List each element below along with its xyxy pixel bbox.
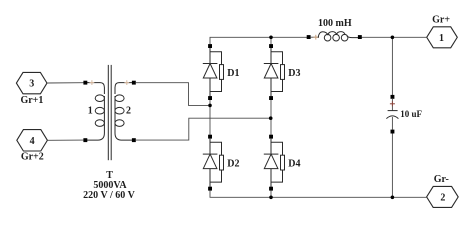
transformer winding 1 polarity + <box>90 80 95 85</box>
wire hex4 to transformer winding 1 bottom <box>47 139 83 141</box>
wire inductor to hexagon 1 <box>362 36 427 38</box>
inductor L1 100 mH <box>307 18 362 41</box>
wire hex3 to transformer winding 1 <box>47 82 84 84</box>
svg-text:Gr+2: Gr+2 <box>21 151 44 162</box>
capacitor C1 10 uF <box>386 95 422 134</box>
junction dot capacitor bottom rail <box>391 196 395 200</box>
svg-text:220 V / 60 V: 220 V / 60 V <box>83 190 135 201</box>
transformer winding 2 port squares <box>132 81 136 85</box>
svg-text:4: 4 <box>30 136 35 147</box>
svg-text:Gr-: Gr- <box>434 174 449 185</box>
svg-text:D4: D4 <box>288 159 300 170</box>
wire transformer winding2 top to bridge left midpoint <box>136 83 209 106</box>
junction dot left leg midpoint <box>208 104 212 108</box>
node 3 (input port hexagon Gr+1) <box>16 72 47 106</box>
svg-text:100 mH: 100 mH <box>318 18 352 29</box>
node 4 (input port hexagon Gr+2) <box>17 130 48 163</box>
diode D1 <box>203 44 240 100</box>
svg-text:10 uF: 10 uF <box>400 109 422 119</box>
wire D4 bottom stub <box>270 189 272 198</box>
transformer T1 core <box>108 65 111 160</box>
junction dot capacitor top rail <box>391 36 395 40</box>
svg-text:D3: D3 <box>288 68 300 79</box>
transformer winding 1 port squares <box>83 81 87 85</box>
transformer name label T 5000VA 220V/60V <box>83 170 135 201</box>
junction dot D4 bottom rail <box>269 196 273 200</box>
svg-text:2: 2 <box>126 106 131 117</box>
junction dot D3 top rail <box>269 36 273 40</box>
wire transformer winding2 bottom to bridge right midpoint <box>136 118 269 140</box>
svg-text:D1: D1 <box>227 68 239 79</box>
wire top rail from D1 up and right to inductor <box>210 37 309 46</box>
wire capacitor leg top <box>391 37 393 95</box>
node 2 (output port hexagon Gr-) <box>427 174 459 207</box>
diode D2 <box>203 135 240 191</box>
junction dot right leg midpoint <box>269 116 273 120</box>
svg-text:Gr+: Gr+ <box>432 14 450 25</box>
transformer winding 1 (primary) <box>85 83 104 141</box>
transformer winding 2 polarity + <box>124 80 129 85</box>
diode D4 <box>264 135 301 191</box>
svg-text:D2: D2 <box>227 159 239 170</box>
svg-text:1: 1 <box>88 106 93 117</box>
svg-text:Gr+1: Gr+1 <box>20 95 43 106</box>
diode D3 <box>264 44 301 100</box>
wire bottom rail from D2 down and right to hexagon 2 <box>210 189 427 198</box>
node 1 (output port hexagon Gr+) <box>427 14 458 48</box>
wire D3 top stub <box>270 37 272 46</box>
wire capacitor leg bottom <box>391 133 393 197</box>
svg-text:2: 2 <box>440 192 445 203</box>
svg-text:3: 3 <box>29 79 34 90</box>
wire left leg D1 bottom to D2 top <box>209 98 211 137</box>
svg-text:1: 1 <box>439 33 444 44</box>
wire right leg D3 bottom to D4 top <box>270 98 272 137</box>
transformer winding 2 (secondary) <box>115 83 134 141</box>
